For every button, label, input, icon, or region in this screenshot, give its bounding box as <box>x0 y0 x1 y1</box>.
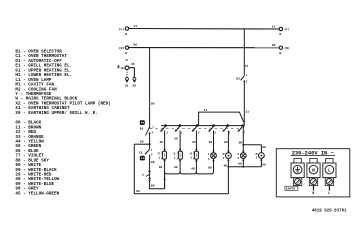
junction X2 bottom <box>242 166 244 168</box>
return wire to C1/Y branch <box>149 188 165 190</box>
pilot lamp X2 <box>242 145 244 153</box>
svg-text:00: 00 <box>262 163 266 166</box>
svg-text:H: H <box>190 153 192 156</box>
svg-text:22: 22 <box>192 141 196 144</box>
wire H1 to neutral rail <box>195 159 197 173</box>
terminal W (L) left <box>125 27 128 30</box>
svg-text:D1: D1 <box>236 76 240 80</box>
svg-text:45 - YELLOW-GREEN: 45 - YELLOW-GREEN <box>15 191 59 196</box>
B1 top contact tip <box>149 127 151 129</box>
svg-text:00: 00 <box>151 103 155 106</box>
svg-text:N: N <box>312 167 315 173</box>
terminal unit L <box>326 159 333 164</box>
svg-text:1: 1 <box>208 158 210 161</box>
D1 lower contact arrow <box>243 80 245 82</box>
svg-text:X: X <box>237 153 239 156</box>
heating element E1 <box>162 151 166 159</box>
neutral rail G1-H1 <box>180 172 196 174</box>
svg-text:00: 00 <box>224 164 228 167</box>
terminal unit N <box>310 159 317 164</box>
svg-text:M: M <box>256 153 258 156</box>
heating element H1 <box>194 151 198 159</box>
wire G1 to neutral rail <box>179 159 181 173</box>
svg-text:2: 2 <box>256 157 258 160</box>
B1 lower contact arrow <box>148 132 150 134</box>
terminal unit E <box>294 159 301 164</box>
svg-text:1: 1 <box>223 157 225 160</box>
wire from L down to D1 <box>243 29 245 76</box>
earth label box <box>285 186 298 190</box>
svg-text:W: W <box>126 58 128 62</box>
svg-text:X9: X9 <box>132 85 136 88</box>
svg-text:00: 00 <box>191 168 195 171</box>
svg-text:2: 2 <box>238 157 240 160</box>
earthing point X9 <box>133 77 136 80</box>
dotted earth wire to X1 <box>126 70 128 77</box>
neutral rail H1-L1 <box>196 172 213 174</box>
svg-text:W: W <box>125 51 127 55</box>
svg-text:90: 90 <box>262 146 266 149</box>
svg-text:(N): (N) <box>284 46 290 50</box>
selector contact pin 3 <box>179 124 182 127</box>
svg-text:E: E <box>158 153 160 156</box>
neutral rail to left <box>134 143 149 145</box>
screw under terminal E <box>293 178 301 186</box>
thermofuse Y <box>148 171 151 173</box>
svg-text:C1: C1 <box>139 150 143 154</box>
svg-text:N: N <box>312 191 314 195</box>
svg-text:00: 00 <box>140 140 144 143</box>
C1 switch arm <box>145 149 150 154</box>
wire contact2 to E1 <box>164 131 166 151</box>
wire B1 to node <box>149 134 151 149</box>
junction M1/M2 return <box>227 166 229 168</box>
svg-text:G: G <box>174 153 176 156</box>
svg-text:W: W <box>279 51 281 55</box>
svg-text:11: 11 <box>272 25 276 28</box>
svg-text:M: M <box>223 153 225 156</box>
wire L: left terminal to right terminal <box>129 28 279 31</box>
wire N: left terminal to right terminal <box>129 47 279 49</box>
svg-text:00: 00 <box>174 166 178 169</box>
wire C1 down <box>149 154 151 188</box>
wire contact3 to G1 <box>179 131 181 151</box>
screw under terminal L <box>325 178 333 186</box>
cavity fan M1 <box>226 153 232 159</box>
svg-text:W: W <box>125 32 127 36</box>
svg-text:00: 00 <box>159 166 163 169</box>
mechanical linkage dashed line <box>150 127 241 129</box>
wire stub under L <box>328 186 330 191</box>
svg-text:4619 629 03701: 4619 629 03701 <box>312 210 347 214</box>
terminal W (E) <box>125 66 129 70</box>
wire contact4 to H1 <box>195 131 197 151</box>
terminal W (N) right <box>279 46 282 49</box>
wire M1 down to bottom neutral rail <box>227 159 229 194</box>
svg-text:11: 11 <box>245 110 249 113</box>
svg-text:(L): (L) <box>284 27 290 31</box>
title underline <box>291 155 336 157</box>
svg-text:(L): (L) <box>119 27 125 31</box>
terminal W (N) left <box>125 46 128 49</box>
wire E1 to neutral rail <box>164 159 166 189</box>
svg-text:00: 00 <box>151 184 155 187</box>
screw under terminal N <box>309 178 317 186</box>
oven lamp L1 <box>211 153 217 159</box>
svg-text:49: 49 <box>160 141 164 144</box>
selector contact pin 4 <box>196 124 199 127</box>
svg-text:45: 45 <box>131 63 135 66</box>
wire contact7 down <box>242 126 244 145</box>
terminal W (L) right <box>279 27 282 30</box>
svg-text:W: W <box>279 32 281 36</box>
cooling fan M2 <box>259 153 265 159</box>
svg-text:X1: X1 <box>125 85 129 88</box>
wire N down to B1 <box>149 48 151 127</box>
selector common bus <box>161 125 244 127</box>
left neutral rail down <box>133 144 135 194</box>
earthing point X1 <box>126 77 129 80</box>
bottom neutral rail <box>134 193 228 195</box>
svg-text:11: 11 <box>134 25 138 28</box>
wire contact5 to L1 <box>213 131 215 153</box>
terminal block illustration outer box <box>276 149 350 197</box>
svg-text:11: 11 <box>245 65 249 68</box>
D1 switch arm <box>241 76 245 81</box>
svg-text:L: L <box>328 167 331 173</box>
rail down leg to thermostat return <box>163 178 165 180</box>
connector arrow X1 <box>126 81 129 83</box>
svg-text:L: L <box>208 153 210 156</box>
connector arrow on C1 return <box>148 180 150 182</box>
neutral node junction <box>149 143 151 145</box>
svg-text:(N): (N) <box>119 46 125 50</box>
svg-text:00: 00 <box>136 190 140 193</box>
svg-text:29: 29 <box>174 138 178 141</box>
earth symbol before (E) <box>118 65 120 67</box>
selector knob symbol B1 <box>140 120 145 125</box>
wire contact6 to M1 <box>227 131 229 153</box>
svg-text:99: 99 <box>209 141 213 144</box>
svg-text:00: 00 <box>238 163 242 166</box>
thermostat knob symbol C1 <box>140 156 145 161</box>
selector contact pin 6 <box>226 124 229 127</box>
svg-text:11: 11 <box>204 109 208 112</box>
svg-text:B1: B1 <box>140 126 144 130</box>
wire stub under E <box>297 185 299 188</box>
bottom wire of X2/M2 loop to M1 column <box>228 166 261 168</box>
svg-text:L: L <box>328 191 330 195</box>
svg-text:EARTH: EARTH <box>286 188 295 191</box>
svg-text:00: 00 <box>272 44 276 47</box>
heating element G1 <box>178 151 182 159</box>
svg-text:00: 00 <box>134 43 138 46</box>
feed wire roof from D1 to contact 4 <box>199 112 244 126</box>
wire 45 from E terminal <box>129 67 135 69</box>
svg-text:00: 00 <box>208 166 212 169</box>
wire L1 to neutral rail <box>213 159 215 173</box>
selector contact pin 2 <box>164 124 167 127</box>
wire from D1 down to selector bus <box>243 82 245 126</box>
junction X2/M2 top <box>242 144 244 146</box>
svg-text:X9 - EARTHING UPPER/ GRILL H.: X9 - EARTHING UPPER/ GRILL H. E. <box>15 111 98 116</box>
selector contact pin 5 <box>212 124 215 127</box>
connector arrow X9 <box>133 81 136 83</box>
wire stub under N <box>313 186 315 191</box>
selector contact pin 7 <box>242 124 245 127</box>
svg-text:99: 99 <box>224 141 228 144</box>
svg-text:00: 00 <box>151 161 155 164</box>
parallel branch wire to M2 <box>243 144 261 146</box>
svg-text:90: 90 <box>239 141 243 144</box>
B1 switch arm <box>146 127 150 136</box>
svg-text:Y: Y <box>142 173 144 177</box>
neutral rail E1-G1 <box>165 172 181 174</box>
